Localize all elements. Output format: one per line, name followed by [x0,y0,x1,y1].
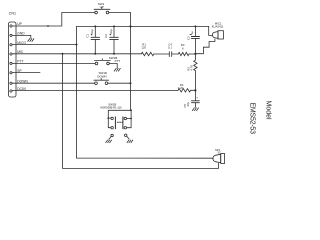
wire DOWN pin to SW1D [12,82,94,84]
dashed link SW2 [117,121,122,123]
svg-text:KUA2411: KUA2411 [212,25,224,29]
pin 2 GND [10,32,25,37]
svg-text:120: 120 [141,45,146,49]
svg-text:UP: UP [100,5,104,9]
svg-text:C2: C2 [104,34,108,38]
resistor R3 [178,43,189,56]
svg-text:47µ: 47µ [186,101,190,106]
pin 7 DOWN [10,79,28,84]
svg-text:2.2K: 2.2K [178,86,184,90]
node SW2 right top [130,109,132,111]
microphone MIC1 [212,22,224,40]
wire MICG vertical riser and top bus [77,26,213,158]
svg-text:6: 6 [182,46,184,50]
svg-text:Model: Model [265,101,272,121]
node R4/R2/C5 [194,89,196,91]
wire MIC branch down to lower bus [63,54,219,169]
svg-text:10µ: 10µ [109,29,113,34]
svg-text:HDRS08B-R1-116: HDRS08B-R1-116 [100,105,122,109]
wire R1 to C4 [154,53,169,55]
svg-text:0.1: 0.1 [168,45,172,49]
wire R4 to node [191,89,196,91]
svg-text:+: + [196,95,198,99]
pin 6 SP [10,69,23,74]
capacitor C5 [183,90,199,107]
wire SW1D right to bus [108,82,131,84]
speaker SP1 [213,148,225,163]
node bus/SW1 [130,25,132,27]
switch SW2 left unit [107,117,115,129]
wire C4 to R3 [172,53,179,55]
node R3/C3/R2/MIC1 [194,53,196,55]
svg-text:10µ: 10µ [90,29,94,34]
capacitor C2 [104,26,118,53]
node C1 top [94,25,96,27]
pin 4 MIC [10,50,24,55]
wire SW1B to ground [109,64,117,69]
switch SW1D (DOWN) [94,71,109,84]
svg-text:DOWN: DOWN [97,74,107,78]
wire PTT pin to SW1B [12,62,95,64]
contact and ground left (SW2) [106,134,114,142]
wire SP pin stub [12,72,40,74]
capacitor C3 [186,26,199,54]
svg-text:1µ: 1µ [190,31,194,35]
wire MIC row bus [12,53,141,55]
resistor R4 [178,83,191,92]
switch SW2 right unit [123,117,132,129]
ground (PTT) [114,68,120,71]
wire MIC1 bottom to node [195,39,215,54]
wire DC5V pin to R4 [12,89,178,91]
svg-text:PTT: PTT [115,59,121,63]
ground (C5) [192,108,198,111]
node C2 top [113,25,115,27]
pin 5 PTT [10,60,24,65]
wire speaker top bus [77,157,214,159]
svg-text:EMS52-53: EMS52-53 [249,103,256,135]
capacitor C4 [168,42,172,56]
connector CN1 [9,12,17,97]
svg-text:4.7K: 4.7K [190,65,194,71]
wire SW1 right contact down to bus [109,13,131,111]
svg-text:SC: SC [218,152,222,155]
pin 8 DC5V [10,87,27,92]
wire UP pin to SW1 [12,13,94,27]
pin 3 MICG [10,41,26,46]
node MICG junction [76,44,78,46]
contact and ground right (SW2) [125,134,133,143]
resistor R1 [141,42,154,55]
node C2 bottom [113,53,115,55]
ground (pin GND) [28,39,34,42]
wire MICG pin [12,44,76,46]
resistor R2 [187,54,197,91]
node SW1D/bus [130,82,132,84]
svg-text:C1: C1 [85,34,89,38]
node C3 top [194,25,196,27]
node MIC/speaker branch [62,53,64,55]
switch SW1 (UP) [94,2,110,14]
switch SW2 label [100,102,122,109]
pin 1 UP [10,22,23,27]
svg-text:C3: C3 [186,36,190,40]
capacitor C1 [85,26,99,53]
wire R3 to node [189,53,195,55]
node bus top junction [130,25,132,27]
node C1 bottom [94,53,96,55]
node on UP wire [47,25,49,27]
svg-text:CN1: CN1 [9,12,16,16]
wire GND pin to ground [12,35,30,38]
wire SW2 top bus [108,110,131,118]
switch SW1B (PTT) [95,56,121,65]
